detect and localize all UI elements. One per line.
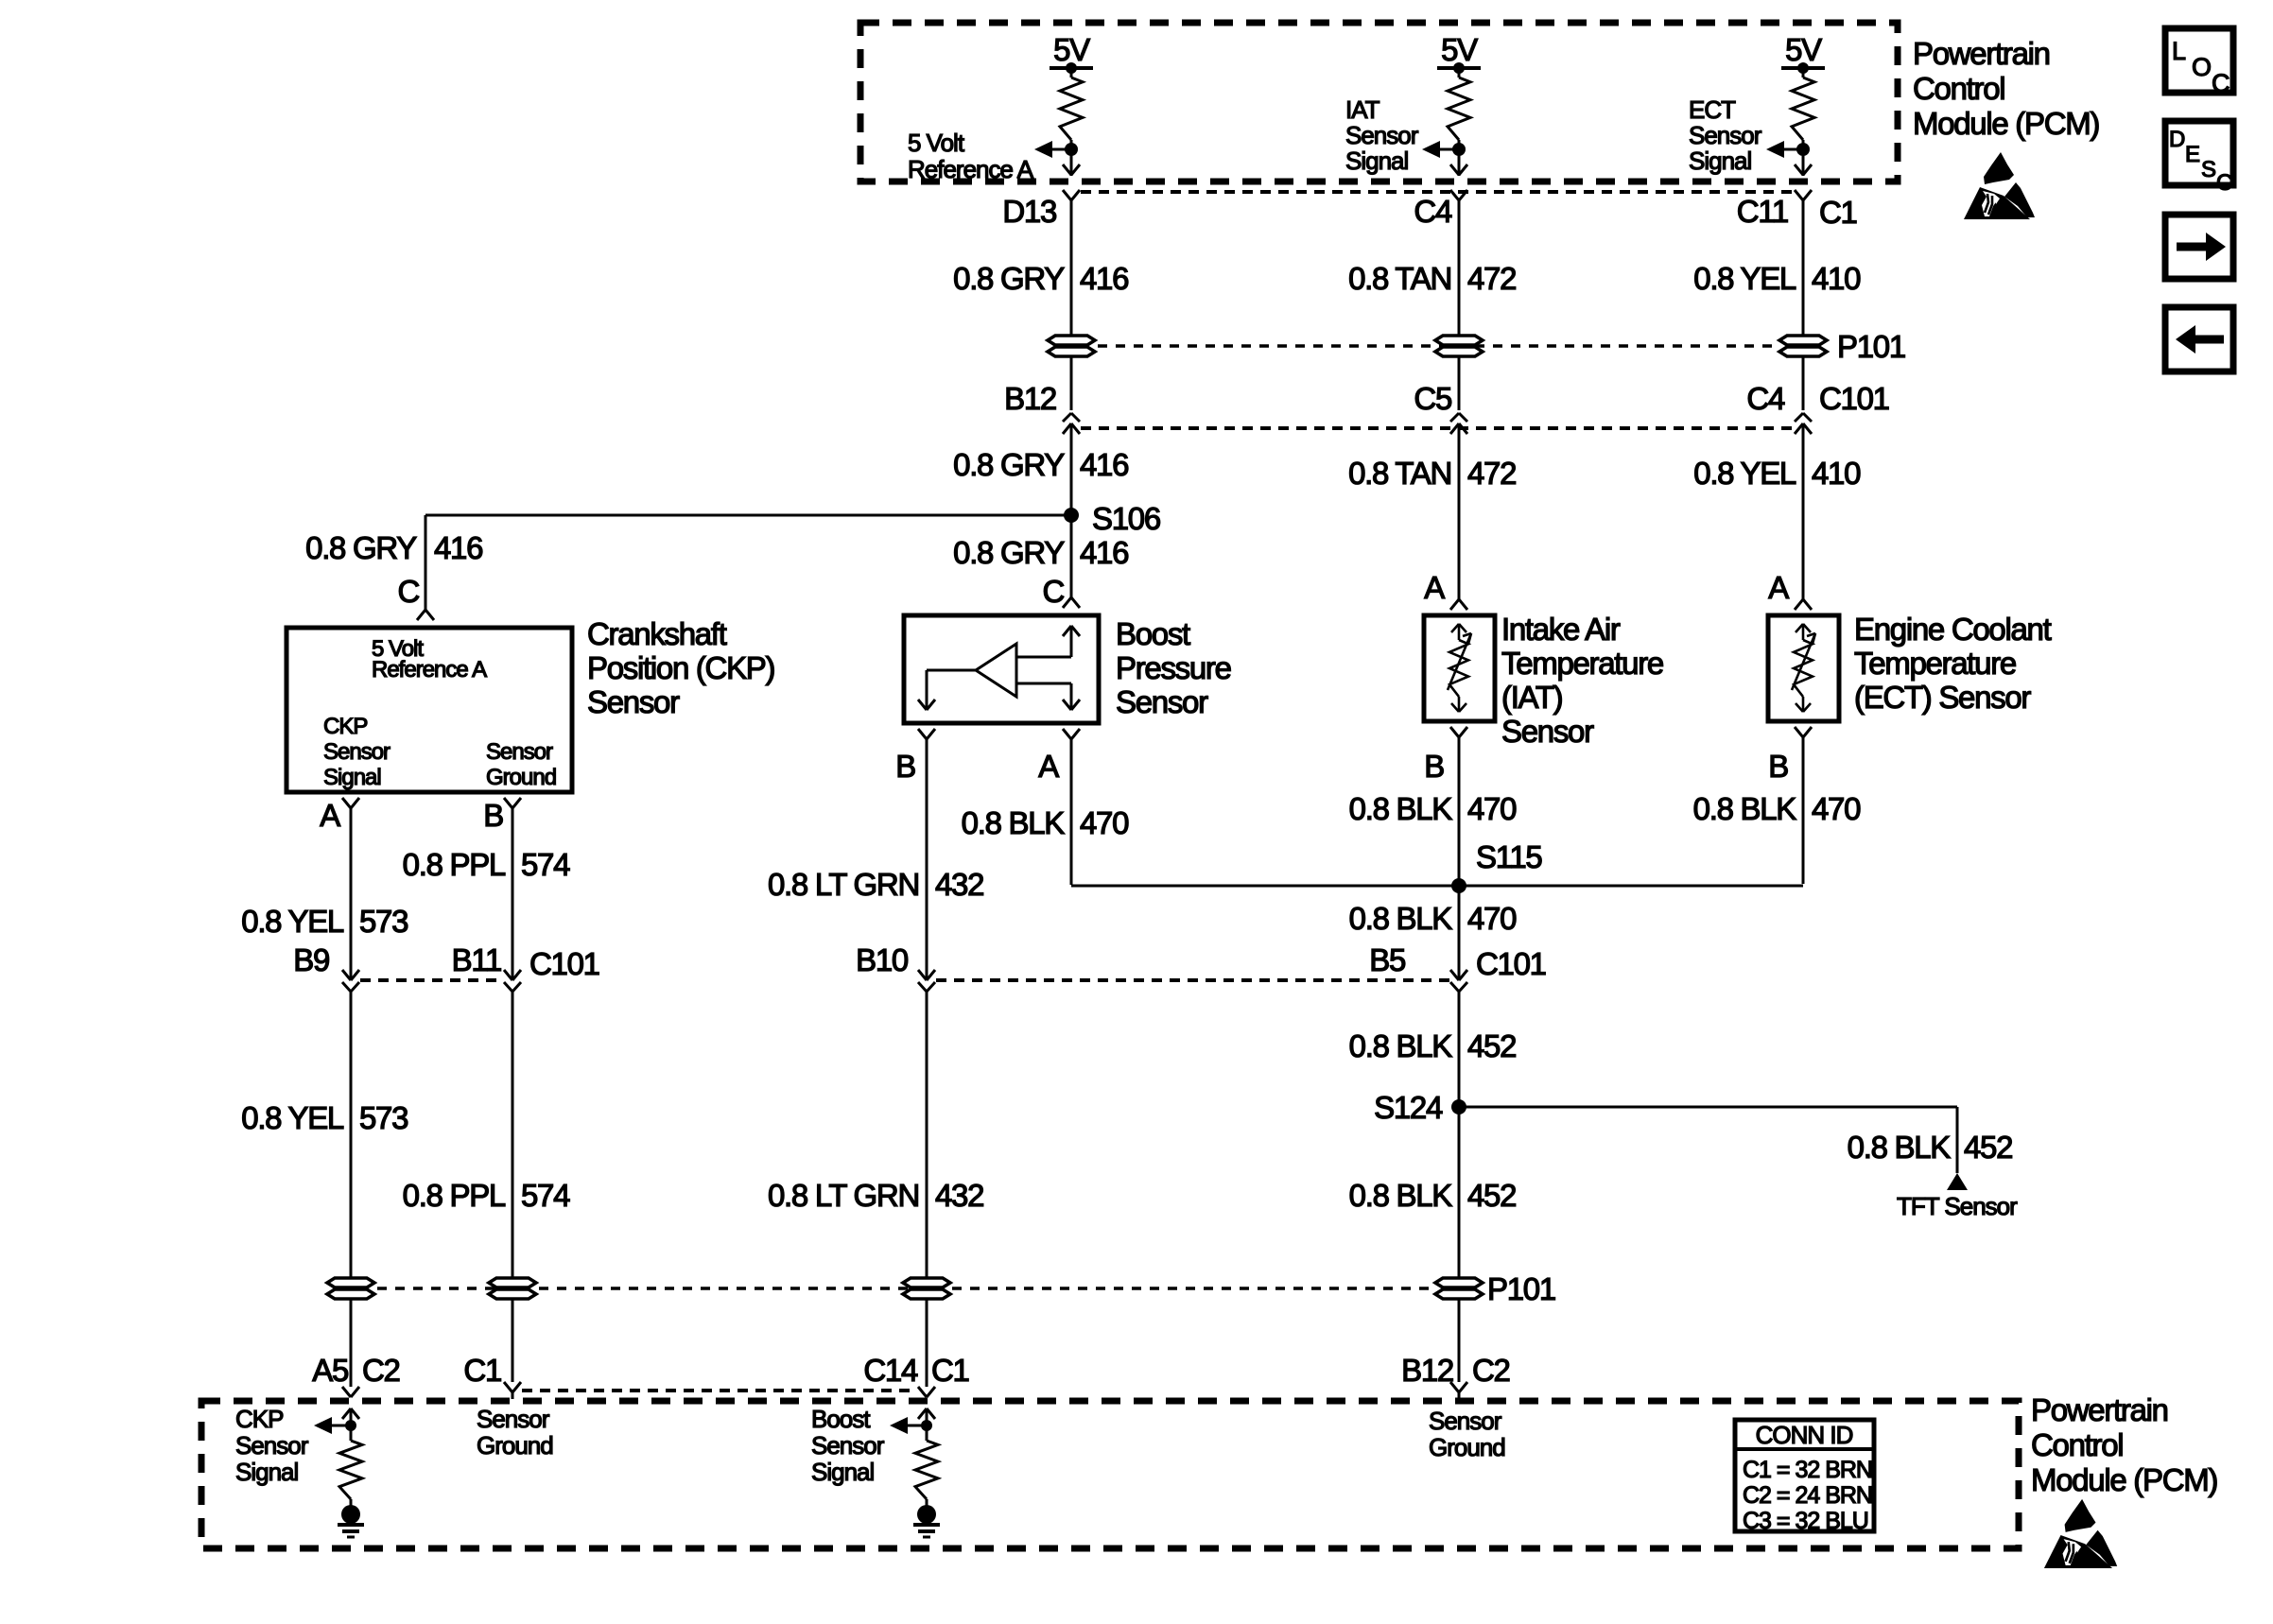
label C4 second xyxy=(1746,381,1785,416)
label 0.8 BLK 470 right xyxy=(1693,791,1861,826)
svg-text:Sensor: Sensor xyxy=(477,1405,550,1433)
svg-text:Sensor: Sensor xyxy=(1429,1407,1502,1435)
svg-text:0.8 GRY: 0.8 GRY xyxy=(953,261,1065,296)
label Crankshaft Position (CKP) Sensor xyxy=(587,616,774,719)
label B12 xyxy=(1004,381,1056,416)
label C4 xyxy=(1414,194,1452,229)
svg-text:5V: 5V xyxy=(1053,32,1090,67)
svg-text:Signal: Signal xyxy=(811,1458,874,1486)
label P101 bottom xyxy=(1487,1271,1555,1306)
grommet P101 on YEL wire bottom xyxy=(327,1278,374,1299)
label 0.8 GRY 416 branch xyxy=(305,530,482,565)
label B11 xyxy=(452,942,501,977)
svg-text:Ground: Ground xyxy=(1429,1433,1505,1461)
svg-text:Reference A: Reference A xyxy=(908,155,1034,183)
svg-text:416: 416 xyxy=(434,530,482,565)
DESC button xyxy=(2165,121,2233,196)
svg-text:C3 = 32 BLU: C3 = 32 BLU xyxy=(1743,1508,1868,1534)
svg-text:Sensor: Sensor xyxy=(587,684,680,719)
label C at Boost xyxy=(1042,574,1064,609)
wire 416 GRY below B12 xyxy=(1070,423,1073,597)
svg-text:0.8 BLK: 0.8 BLK xyxy=(1349,791,1453,826)
label B below CKP xyxy=(483,798,503,833)
resistor in PCM for Boost signal xyxy=(890,1408,940,1537)
wire 416 GRY from D13 xyxy=(1070,200,1073,410)
svg-text:0.8 BLK: 0.8 BLK xyxy=(1349,1178,1453,1213)
label B5 xyxy=(1369,942,1405,977)
svg-text:C: C xyxy=(2212,69,2230,97)
label Sensor Ground bottom right xyxy=(1429,1407,1505,1461)
wire 574 PPL from CKP B xyxy=(512,808,514,979)
svg-text:0.8 BLK: 0.8 BLK xyxy=(1693,791,1797,826)
svg-text:432: 432 xyxy=(935,867,983,902)
label B10 xyxy=(856,942,909,977)
svg-text:Position (CKP): Position (CKP) xyxy=(587,650,774,685)
svg-text:0.8 BLK: 0.8 BLK xyxy=(1848,1130,1952,1165)
label 0.8 YEL 573 lower xyxy=(241,1100,408,1135)
svg-text:C4: C4 xyxy=(1746,381,1785,416)
wire 470 BLK from Boost A xyxy=(1071,739,1459,886)
label Engine Coolant Temperature (ECT) Sensor xyxy=(1854,612,2052,715)
label Boost Pressure Sensor xyxy=(1116,616,1231,719)
label 5 Volt Reference A in CKP xyxy=(372,636,487,682)
pin A chevron at ECT xyxy=(1795,599,1812,610)
svg-text:0.8 GRY: 0.8 GRY xyxy=(953,535,1065,570)
splice S115 xyxy=(1451,839,1541,893)
svg-text:A: A xyxy=(1768,570,1789,605)
label Intake Air Temperature (IAT) Sensor xyxy=(1501,612,1663,749)
label 0.8 BLK 470 below S115 xyxy=(1349,901,1517,936)
label P101 top xyxy=(1837,329,1905,364)
pin A chevron at IAT xyxy=(1450,599,1467,610)
svg-text:0.8 GRY: 0.8 GRY xyxy=(953,447,1065,482)
grommet P101 on TAN wire xyxy=(1435,336,1483,356)
svg-text:Temperature: Temperature xyxy=(1854,646,2016,681)
label C101 left xyxy=(529,946,599,981)
svg-text:0.8 BLK: 0.8 BLK xyxy=(962,805,1066,840)
LOC button xyxy=(2165,28,2233,97)
svg-text:C: C xyxy=(1042,574,1064,609)
pin C1 chevron bottom xyxy=(504,1382,521,1399)
svg-text:Signal: Signal xyxy=(1689,147,1751,175)
crossing A5 xyxy=(342,1387,359,1397)
label 0.8 BLK 452 above S124 xyxy=(1349,1028,1517,1063)
CKP sensor box xyxy=(286,628,572,792)
ESD sensitivity symbol top xyxy=(1964,152,2035,219)
connector C101 dashed line (upper) xyxy=(1081,426,1794,430)
svg-text:410: 410 xyxy=(1812,456,1861,491)
svg-text:Sensor: Sensor xyxy=(486,739,553,765)
svg-text:452: 452 xyxy=(1467,1028,1516,1063)
svg-text:IAT: IAT xyxy=(1345,95,1380,124)
label 0.8 GRY 416 below B12 xyxy=(953,447,1128,482)
svg-text:Sensor: Sensor xyxy=(1116,684,1208,719)
wire 470 BLK from IAT B xyxy=(1458,737,1461,979)
svg-text:C2 = 24 BRN: C2 = 24 BRN xyxy=(1743,1482,1872,1509)
svg-text:C101: C101 xyxy=(1476,946,1546,981)
label A below Boost xyxy=(1038,749,1059,784)
svg-text:Boost: Boost xyxy=(1116,616,1190,651)
label B below IAT xyxy=(1424,749,1444,784)
svg-text:C: C xyxy=(2216,170,2232,196)
svg-text:B9: B9 xyxy=(293,942,329,977)
off-page connector TFT xyxy=(1947,1173,1968,1190)
svg-text:0.8 PPL: 0.8 PPL xyxy=(403,847,506,882)
svg-text:472: 472 xyxy=(1467,456,1516,491)
crossing B10 xyxy=(918,970,935,992)
svg-text:TFT Sensor: TFT Sensor xyxy=(1897,1192,2018,1220)
svg-text:B: B xyxy=(1768,749,1788,784)
label A at IAT xyxy=(1424,570,1445,605)
PCM module box (top) xyxy=(860,23,1898,181)
crossing C14 xyxy=(918,1387,935,1397)
back arrow button xyxy=(2165,307,2233,371)
label 0.8 GRY 416 below S106 xyxy=(953,535,1128,570)
svg-text:C: C xyxy=(397,574,419,609)
svg-text:Sensor: Sensor xyxy=(1501,714,1594,749)
svg-text:Control: Control xyxy=(2031,1427,2123,1462)
label 0.8 YEL 573 xyxy=(241,904,408,939)
wire 470 BLK from ECT B xyxy=(1459,737,1803,886)
label 0.8 LT GRN 432 xyxy=(768,867,983,902)
label C1 xyxy=(1819,195,1857,230)
svg-text:B12: B12 xyxy=(1004,381,1056,416)
label A at ECT xyxy=(1768,570,1789,605)
svg-text:0.8 YEL: 0.8 YEL xyxy=(1693,456,1796,491)
svg-text:574: 574 xyxy=(521,1178,570,1213)
pin A chevron below CKP xyxy=(342,798,359,808)
svg-text:P101: P101 xyxy=(1837,329,1905,364)
label 0.8 BLK 452 TFT xyxy=(1848,1130,2013,1165)
svg-text:B5: B5 xyxy=(1369,942,1405,977)
resistor in PCM for 5V Reference A xyxy=(1034,32,1093,176)
svg-text:Intake Air: Intake Air xyxy=(1501,612,1621,647)
label C14 C1 xyxy=(863,1353,968,1388)
splice S106 xyxy=(1064,501,1160,536)
svg-text:Sensor: Sensor xyxy=(323,739,390,765)
svg-text:Pressure: Pressure xyxy=(1116,650,1231,685)
svg-text:Module (PCM): Module (PCM) xyxy=(1913,106,2099,141)
svg-text:Engine Coolant: Engine Coolant xyxy=(1854,612,2052,647)
svg-text:Signal: Signal xyxy=(235,1458,298,1486)
pin B chevron below Boost xyxy=(918,729,935,739)
wire 452 BLK upper segment xyxy=(1458,991,1461,1382)
svg-text:C5: C5 xyxy=(1414,381,1451,416)
svg-text:470: 470 xyxy=(1080,805,1129,840)
svg-text:A: A xyxy=(320,798,340,833)
svg-text:C11: C11 xyxy=(1737,194,1788,229)
svg-text:CONN ID: CONN ID xyxy=(1756,1421,1853,1449)
svg-text:Temperature: Temperature xyxy=(1501,646,1663,681)
svg-text:Signal: Signal xyxy=(1345,147,1408,175)
svg-text:573: 573 xyxy=(359,1100,408,1135)
wire 432 LT GRN from Boost B xyxy=(926,739,928,979)
label 5 Volt Reference A xyxy=(908,129,1034,183)
crossing B11 xyxy=(504,970,521,992)
pin B chevron below CKP xyxy=(504,798,521,808)
wire 573 YEL lower xyxy=(350,991,353,1387)
label Powertrain Control Module (PCM) top right xyxy=(1913,36,2099,141)
ECT sensor box xyxy=(1768,615,1839,721)
svg-text:D: D xyxy=(2169,127,2185,152)
label Sensor Ground in box xyxy=(486,739,556,790)
svg-text:432: 432 xyxy=(935,1178,983,1213)
svg-text:0.8 PPL: 0.8 PPL xyxy=(403,1178,506,1213)
svg-text:573: 573 xyxy=(359,904,408,939)
IAT sensor box xyxy=(1424,615,1495,721)
svg-text:C2: C2 xyxy=(1472,1353,1510,1388)
wire 472 TAN from C4 xyxy=(1458,200,1461,410)
svg-text:410: 410 xyxy=(1812,261,1861,296)
svg-text:Ground: Ground xyxy=(486,765,556,790)
svg-text:S106: S106 xyxy=(1092,501,1160,536)
wire 410 YEL from C11 xyxy=(1802,200,1805,410)
grommet P101 on LT GRN wire bottom xyxy=(903,1278,950,1299)
wire 410 YEL to ECT xyxy=(1802,423,1805,599)
wire 416 GRY branch to CKP xyxy=(425,515,1071,610)
svg-text:A5: A5 xyxy=(312,1353,348,1388)
svg-text:(ECT) Sensor: (ECT) Sensor xyxy=(1854,680,2031,715)
svg-text:Module (PCM): Module (PCM) xyxy=(2031,1462,2217,1497)
svg-text:E: E xyxy=(2185,142,2199,167)
label A5 C2 xyxy=(312,1353,399,1388)
svg-text:CKP: CKP xyxy=(235,1405,283,1433)
svg-text:S: S xyxy=(2201,157,2215,182)
svg-text:C14: C14 xyxy=(863,1353,918,1388)
svg-text:Sensor: Sensor xyxy=(1689,121,1762,149)
svg-text:0.8 GRY: 0.8 GRY xyxy=(305,530,417,565)
svg-text:C4: C4 xyxy=(1414,194,1452,229)
svg-text:5 Volt: 5 Volt xyxy=(908,129,965,157)
svg-text:B11: B11 xyxy=(452,942,501,977)
label 0.8 TAN 472 lower xyxy=(1348,456,1516,491)
svg-text:O: O xyxy=(2192,53,2211,81)
svg-text:Ground: Ground xyxy=(477,1431,553,1460)
resistor in PCM for IAT signal xyxy=(1422,32,1481,176)
label 0.8 YEL 410 lower xyxy=(1693,456,1861,491)
svg-text:Signal: Signal xyxy=(323,765,381,790)
thermistor in IAT xyxy=(1448,624,1471,712)
op-amp in Boost sensor xyxy=(918,626,1080,710)
connector C1 dashed line (bottom) xyxy=(522,1389,917,1392)
label A below CKP xyxy=(320,798,340,833)
pin A chevron below Boost xyxy=(1063,729,1080,739)
svg-text:416: 416 xyxy=(1080,447,1128,482)
svg-text:C1 = 32 BRN: C1 = 32 BRN xyxy=(1743,1457,1872,1483)
resistor in PCM for CKP signal xyxy=(314,1408,364,1537)
svg-text:(IAT): (IAT) xyxy=(1501,680,1562,715)
grommet P101 on GRY wire xyxy=(1048,336,1095,356)
svg-text:Control: Control xyxy=(1913,71,2004,106)
crossing B9 xyxy=(342,970,359,992)
label 0.8 PPL 574 xyxy=(403,847,570,882)
CONN ID table xyxy=(1735,1420,1874,1534)
label D13 xyxy=(1002,194,1056,229)
svg-text:S115: S115 xyxy=(1476,839,1541,874)
svg-text:0.8 YEL: 0.8 YEL xyxy=(241,1100,344,1135)
svg-text:472: 472 xyxy=(1467,261,1516,296)
label 0.8 YEL 410 xyxy=(1693,261,1861,296)
pin C11 chevron xyxy=(1795,190,1812,200)
label 0.8 BLK 470 left xyxy=(962,805,1129,840)
svg-text:574: 574 xyxy=(521,847,570,882)
label C at CKP xyxy=(397,574,419,609)
pin D13 chevron xyxy=(1063,190,1080,200)
label C101 right xyxy=(1476,946,1546,981)
ESD sensitivity symbol bottom xyxy=(2044,1499,2117,1568)
label Powertrain Control Module (PCM) bottom right xyxy=(2031,1392,2217,1497)
label C5 xyxy=(1414,381,1451,416)
svg-text:B: B xyxy=(483,798,503,833)
svg-text:C1: C1 xyxy=(463,1353,501,1388)
svg-text:Boost: Boost xyxy=(811,1405,871,1433)
label TFT Sensor xyxy=(1897,1192,2018,1220)
crossing B12 xyxy=(1063,413,1080,434)
grommet P101 on PPL wire bottom xyxy=(489,1278,536,1299)
svg-text:S124: S124 xyxy=(1374,1090,1443,1125)
label C101 upper xyxy=(1819,381,1889,416)
wire 574 PPL lower xyxy=(512,991,514,1382)
connector C101 dashed line right xyxy=(936,978,1449,982)
svg-text:470: 470 xyxy=(1467,791,1517,826)
label CKP Sensor Signal in box xyxy=(323,714,390,790)
splice S124 xyxy=(1374,1090,1466,1125)
svg-text:A: A xyxy=(1038,749,1059,784)
label 0.8 TAN 472 xyxy=(1348,261,1516,296)
crossing C5 xyxy=(1450,413,1467,434)
crossing C4 xyxy=(1795,413,1812,434)
svg-text:5V: 5V xyxy=(1441,32,1478,67)
label ECT Sensor Signal xyxy=(1689,95,1762,175)
svg-text:Sensor: Sensor xyxy=(811,1431,885,1460)
label 0.8 PPL 574 lower xyxy=(403,1178,570,1213)
svg-text:C2: C2 xyxy=(362,1353,400,1388)
svg-text:416: 416 xyxy=(1080,261,1128,296)
grommet P101 on YEL wire xyxy=(1779,336,1827,356)
label IAT Sensor Signal xyxy=(1345,95,1419,175)
svg-text:Powertrain: Powertrain xyxy=(1913,36,2050,71)
svg-text:ECT: ECT xyxy=(1689,95,1736,124)
svg-text:L: L xyxy=(2172,37,2186,65)
svg-text:0.8 YEL: 0.8 YEL xyxy=(241,904,344,939)
wire 472 TAN to IAT xyxy=(1458,423,1461,599)
svg-text:B12: B12 xyxy=(1401,1353,1453,1388)
svg-text:CKP: CKP xyxy=(323,714,367,739)
svg-text:0.8 YEL: 0.8 YEL xyxy=(1693,261,1796,296)
svg-text:Powertrain: Powertrain xyxy=(2031,1392,2168,1427)
label C1 bottom xyxy=(463,1353,501,1388)
svg-text:Sensor: Sensor xyxy=(1345,121,1419,149)
svg-text:C101: C101 xyxy=(1819,381,1889,416)
pin C chevron at CKP xyxy=(417,610,434,620)
svg-text:A: A xyxy=(1424,570,1445,605)
svg-text:Sensor: Sensor xyxy=(235,1431,309,1460)
resistor in PCM for ECT signal xyxy=(1766,32,1825,176)
label 0.8 BLK 470 mid xyxy=(1349,791,1517,826)
svg-text:B: B xyxy=(1424,749,1444,784)
forward arrow button xyxy=(2165,215,2233,279)
svg-text:416: 416 xyxy=(1080,535,1128,570)
svg-text:0.8 LT GRN: 0.8 LT GRN xyxy=(768,1178,919,1213)
svg-text:470: 470 xyxy=(1812,791,1861,826)
wire 432 LT GRN lower xyxy=(926,991,928,1387)
pin B chevron below ECT xyxy=(1795,727,1812,737)
svg-text:0.8 BLK: 0.8 BLK xyxy=(1349,901,1453,936)
label 0.8 GRY 416 xyxy=(953,261,1128,296)
svg-text:D13: D13 xyxy=(1002,194,1056,229)
pin B12 chevron bottom xyxy=(1450,1382,1467,1399)
thermistor in ECT xyxy=(1792,624,1815,712)
svg-text:B: B xyxy=(895,749,915,784)
svg-text:C1: C1 xyxy=(1819,195,1857,230)
pin B chevron below IAT xyxy=(1450,727,1467,737)
svg-text:452: 452 xyxy=(1964,1130,2012,1165)
wire 452 BLK to TFT sensor xyxy=(1459,1107,1957,1173)
label Boost Sensor Signal bottom xyxy=(811,1405,885,1486)
label B below ECT xyxy=(1768,749,1788,784)
label 0.8 BLK 452 below S124 xyxy=(1349,1178,1517,1213)
svg-text:470: 470 xyxy=(1467,901,1517,936)
svg-text:0.8 TAN: 0.8 TAN xyxy=(1348,456,1451,491)
label 0.8 LT GRN 432 lower xyxy=(768,1178,983,1213)
P101 dashed line (bottom) xyxy=(377,1287,1432,1290)
svg-text:452: 452 xyxy=(1467,1178,1516,1213)
label CKP Sensor Signal bottom xyxy=(235,1405,309,1486)
connector C1 dashed line (top) xyxy=(1081,190,1794,194)
svg-text:P101: P101 xyxy=(1487,1271,1555,1306)
svg-text:0.8 BLK: 0.8 BLK xyxy=(1349,1028,1453,1063)
grommet P101 on BLK wire bottom xyxy=(1435,1278,1483,1299)
svg-text:B10: B10 xyxy=(856,942,909,977)
pin C4 chevron xyxy=(1450,190,1467,200)
P101 dashed line (top) xyxy=(1098,344,1777,348)
svg-text:Reference A: Reference A xyxy=(372,657,487,682)
crossing B5 xyxy=(1450,970,1467,992)
svg-text:C1: C1 xyxy=(931,1353,969,1388)
svg-text:0.8 TAN: 0.8 TAN xyxy=(1348,261,1451,296)
connector C101 dashed line left xyxy=(360,978,503,982)
label Sensor Ground bottom left xyxy=(477,1405,553,1460)
svg-text:0.8 LT GRN: 0.8 LT GRN xyxy=(768,867,919,902)
label C11 xyxy=(1737,194,1788,229)
svg-text:5V: 5V xyxy=(1785,32,1822,67)
label B below Boost xyxy=(895,749,915,784)
pin C chevron at Boost xyxy=(1063,597,1080,608)
svg-text:C101: C101 xyxy=(529,946,599,981)
PCM module box (bottom) xyxy=(201,1401,2019,1548)
label B9 xyxy=(293,942,329,977)
Boost pressure sensor box xyxy=(904,615,1099,723)
svg-text:Crankshaft: Crankshaft xyxy=(587,616,727,651)
wire 573 YEL from CKP A xyxy=(350,808,353,979)
label B12 C2 bottom xyxy=(1401,1353,1509,1388)
